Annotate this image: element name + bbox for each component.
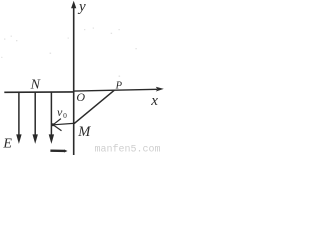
svg-text:P: P xyxy=(115,80,123,91)
plate line MN xyxy=(4,91,73,93)
svg-text:E: E xyxy=(2,136,12,151)
svg-text:x: x xyxy=(150,93,158,109)
svg-text:y: y xyxy=(77,0,86,15)
field arrow 2 xyxy=(33,93,38,144)
x axis xyxy=(74,87,164,92)
svg-text:M: M xyxy=(77,124,91,140)
field arrow 1 xyxy=(16,93,21,144)
scan noise specks xyxy=(1,28,137,77)
field arrow 3 xyxy=(49,93,54,144)
svg-text:N: N xyxy=(30,78,41,93)
svg-text:manfen5.com: manfen5.com xyxy=(95,143,161,155)
velocity arrow v0 xyxy=(51,119,73,131)
segment MP xyxy=(74,90,115,124)
y axis xyxy=(71,1,76,155)
svg-text:v0: v0 xyxy=(57,105,67,120)
bottom dash arrow xyxy=(50,150,67,153)
svg-text:O: O xyxy=(76,90,85,104)
